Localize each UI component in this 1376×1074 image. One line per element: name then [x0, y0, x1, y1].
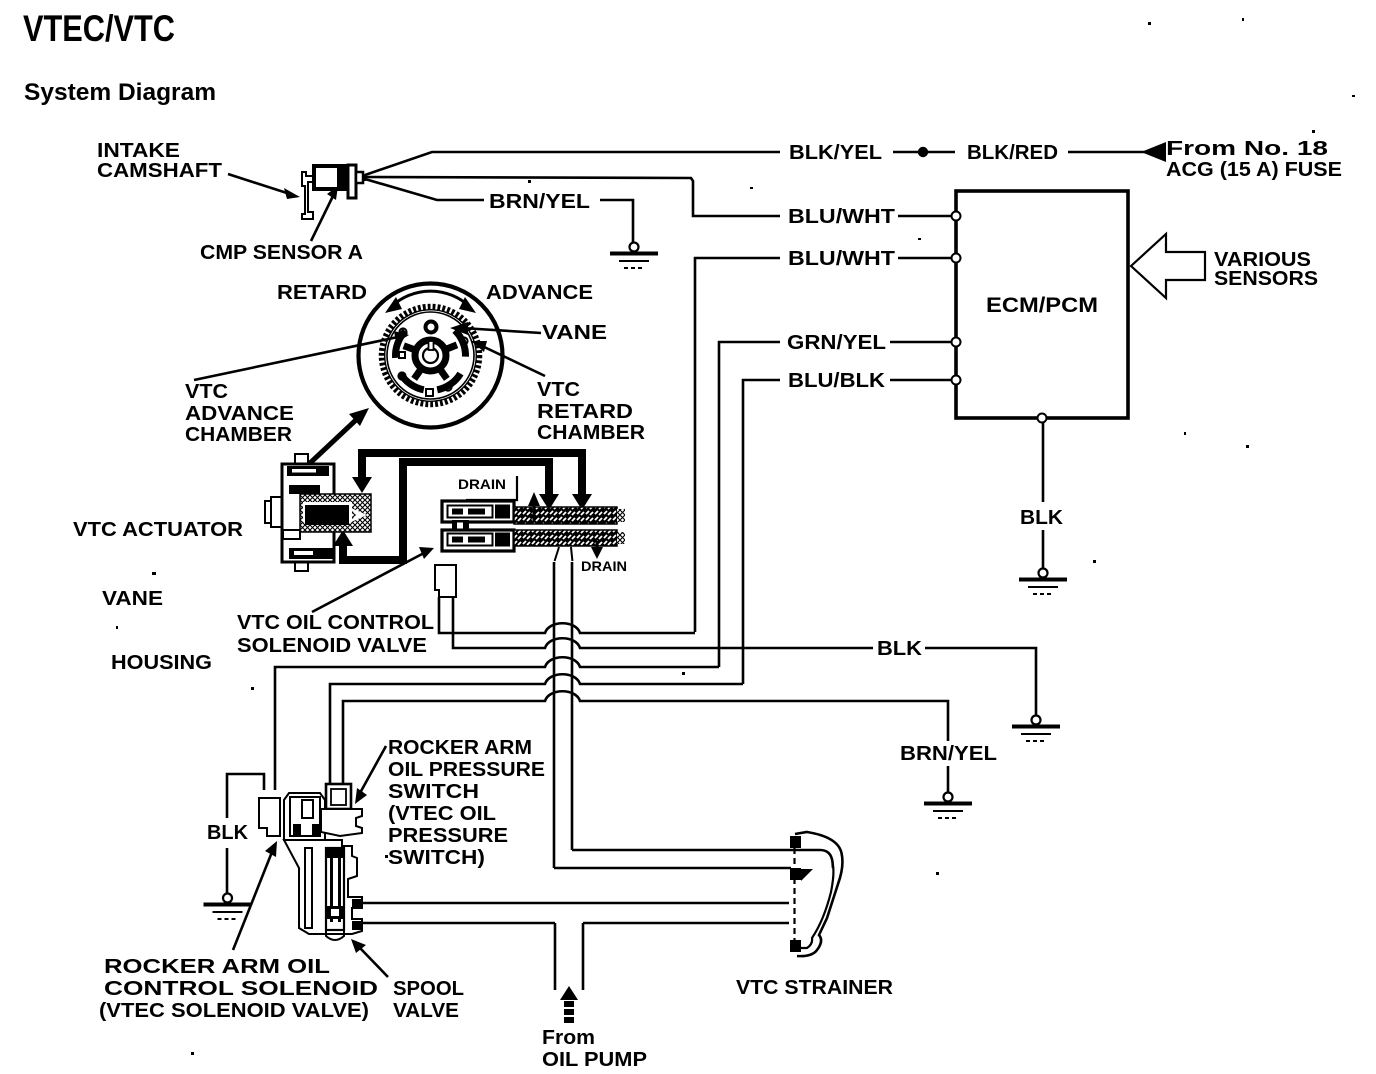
- leader arrow VTC OIL CONTROL SOLENOID VALVE: [312, 553, 424, 612]
- solenoid valve connector: [435, 565, 456, 597]
- svg-text:RETARD: RETARD: [537, 400, 633, 423]
- oil pipe lower horizontal (main gallery): [362, 902, 789, 905]
- svg-text:DRAIN: DRAIN: [581, 558, 627, 574]
- svg-text:CHAMBER: CHAMBER: [537, 421, 645, 444]
- VTC actuator drawing: [265, 454, 371, 571]
- svg-text:From No. 18: From No. 18: [1166, 137, 1328, 160]
- ground G5 (switch BRN/YEL): [924, 793, 972, 819]
- svg-text:BRN/YEL: BRN/YEL: [489, 190, 590, 213]
- ECM/PCM box: [956, 191, 1128, 418]
- leader arrow ROCKER ARM OIL CONTROL SOLENOID: [233, 852, 272, 950]
- drain up arrow: [533, 505, 536, 520]
- wire 4 BLU/BLK horizontal to pressure switch: [330, 674, 743, 786]
- svg-text:VTC: VTC: [537, 378, 580, 401]
- drain passage line (top): [466, 476, 517, 500]
- ground G4 (solenoid BLK): [1012, 716, 1060, 742]
- wire 2 solenoid valve BLK lead to ground: [453, 597, 873, 648]
- svg-text:CHAMBER: CHAMBER: [185, 423, 292, 446]
- ground G3 (ECM BLK): [1019, 569, 1067, 595]
- pin circle ECM ground: [1038, 414, 1047, 423]
- svg-text:DRAIN: DRAIN: [458, 476, 506, 492]
- VARIOUS SENSORS block arrow: [1131, 234, 1205, 298]
- cam gear outer circle: [359, 284, 503, 428]
- svg-text:VTC: VTC: [185, 380, 228, 403]
- thick oil pipe inner (retard passage): [343, 462, 549, 560]
- svg-text:(VTEC OIL: (VTEC OIL: [388, 802, 496, 825]
- cam gear toothed ring: [382, 307, 479, 404]
- svg-text:GRN/YEL: GRN/YEL: [787, 331, 886, 354]
- oil pipe upper horizontal to strainer: [572, 850, 833, 868]
- leader line VTC ADVANCE CHAMBER: [194, 337, 398, 380]
- svg-text:BLK: BLK: [207, 821, 248, 844]
- junction dot on BLK/YEL: [918, 147, 928, 157]
- top bolt on rotor: [426, 322, 437, 333]
- svg-text:RETARD: RETARD: [277, 281, 367, 304]
- rotor bolts: [399, 328, 406, 335]
- svg-text:OIL PUMP: OIL PUMP: [542, 1048, 647, 1071]
- ground G1 (CMP BRN/YEL): [610, 243, 658, 269]
- wire BLK rocker solenoid ground: [227, 774, 264, 818]
- svg-text:From: From: [542, 1026, 595, 1049]
- svg-text:ECM/PCM: ECM/PCM: [986, 294, 1098, 317]
- spool valve body: [284, 840, 362, 940]
- svg-text:ACG (15 A) FUSE: ACG (15 A) FUSE: [1166, 158, 1342, 181]
- From OIL PUMP arrow: [560, 986, 578, 1000]
- svg-text:SPOOL: SPOOL: [393, 977, 464, 1000]
- svg-text:SOLENOID VALVE: SOLENOID VALVE: [237, 634, 427, 657]
- svg-text:BLK: BLK: [1020, 506, 1063, 529]
- svg-text:CONTROL SOLENOID: CONTROL SOLENOID: [104, 977, 378, 1000]
- VTC oil control solenoid valve drawing: [435, 476, 625, 597]
- oil pipe vertical from solenoid valve: [553, 562, 556, 868]
- arrowhead from No.18 ACG fuse: [1141, 142, 1166, 162]
- ground G2 (rocker solenoid BLK): [204, 894, 252, 920]
- svg-text:(VTEC SOLENOID VALVE): (VTEC SOLENOID VALVE): [99, 999, 369, 1022]
- svg-text:SENSORS: SENSORS: [1214, 267, 1318, 290]
- svg-text:BLU/BLK: BLU/BLK: [788, 369, 885, 392]
- wire 1 solenoid valve BLU/WHT lead: [439, 597, 695, 633]
- svg-text:VTC OIL CONTROL: VTC OIL CONTROL: [237, 611, 434, 634]
- wire BLK ECM ground: [1042, 422, 1045, 502]
- svg-text:ADVANCE: ADVANCE: [185, 402, 294, 425]
- leader line VANE right: [462, 328, 541, 333]
- VTC strainer: [790, 832, 842, 956]
- leader line VTC RETARD CHAMBER: [480, 345, 545, 376]
- svg-text:ROCKER ARM: ROCKER ARM: [388, 736, 532, 759]
- svg-text:BLK: BLK: [877, 637, 922, 660]
- svg-text:System Diagram: System Diagram: [24, 79, 216, 106]
- pin circle BLU/WHT2: [952, 254, 961, 263]
- spool valve stem taper: [555, 547, 573, 561]
- wire BLU/BLK switch signal: [890, 379, 951, 382]
- leader arrow ROCKER ARM OIL PRESSURE SWITCH: [360, 746, 386, 793]
- svg-text:ROCKER ARM OIL: ROCKER ARM OIL: [104, 955, 330, 978]
- retard/advance curved arrow: [391, 291, 470, 307]
- pin circle GRN/YEL: [952, 338, 961, 347]
- svg-text:SWITCH: SWITCH: [388, 780, 479, 803]
- pin circle BLU/WHT1: [952, 212, 961, 221]
- thick arrow actuator to gear: [309, 419, 357, 464]
- pin circle BLU/BLK: [952, 376, 961, 385]
- wire BLK/YEL from CMP sensor to fuse: [365, 152, 780, 175]
- svg-text:ADVANCE: ADVANCE: [486, 281, 593, 304]
- wire BRN/YEL from CMP sensor to ground: [365, 179, 484, 200]
- svg-text:BLU/WHT: BLU/WHT: [788, 247, 896, 270]
- svg-text:VTEC/VTC: VTEC/VTC: [23, 8, 175, 49]
- svg-text:VALVE: VALVE: [393, 999, 459, 1022]
- thick oil pipe outer (advance passage): [362, 453, 582, 499]
- svg-text:VTC ACTUATOR: VTC ACTUATOR: [73, 518, 243, 541]
- svg-text:VANE: VANE: [102, 587, 163, 610]
- svg-text:BRN/YEL: BRN/YEL: [900, 742, 997, 765]
- rotor hub: [415, 340, 446, 371]
- svg-text:OIL PRESSURE: OIL PRESSURE: [388, 758, 545, 781]
- svg-text:BLK/YEL: BLK/YEL: [789, 141, 882, 164]
- svg-text:BLK/RED: BLK/RED: [967, 141, 1058, 164]
- wire 5 BRN/YEL from pressure switch to ground: [343, 691, 948, 786]
- svg-text:PRESSURE: PRESSURE: [388, 824, 508, 847]
- rotor vanes: [393, 329, 469, 392]
- svg-text:CMP SENSOR A: CMP SENSOR A: [200, 241, 363, 264]
- CMP sensor A drawing: [302, 165, 366, 219]
- leader arrow INTAKE CAMSHAFT: [228, 174, 290, 194]
- oil pump feed pipe: [554, 923, 557, 990]
- drain down arrow (bottom): [596, 541, 599, 550]
- svg-text:VTC STRAINER: VTC STRAINER: [736, 976, 893, 999]
- svg-text:BLU/WHT: BLU/WHT: [788, 205, 896, 228]
- wire BLU/WHT 1 from CMP sensor: [366, 177, 780, 216]
- svg-text:CAMSHAFT: CAMSHAFT: [97, 159, 223, 182]
- leader arrow CMP SENSOR A: [311, 196, 333, 241]
- svg-text:SWITCH): SWITCH): [388, 846, 485, 869]
- rocker arm oil control solenoid body: [284, 793, 325, 840]
- wire BLU/WHT 2 solenoid valve signal: [898, 257, 951, 260]
- svg-text:VANE: VANE: [542, 321, 607, 344]
- wire 3 GRN/YEL horizontal to rocker solenoid: [275, 657, 719, 790]
- rocker arm oil pressure switch body: [321, 784, 362, 836]
- svg-text:HOUSING: HOUSING: [111, 651, 212, 674]
- rocker arm oil control solenoid connector: [259, 798, 280, 836]
- wire GRN/YEL rocker solenoid signal: [890, 341, 951, 344]
- leader arrow SPOOL VALVE: [360, 948, 388, 977]
